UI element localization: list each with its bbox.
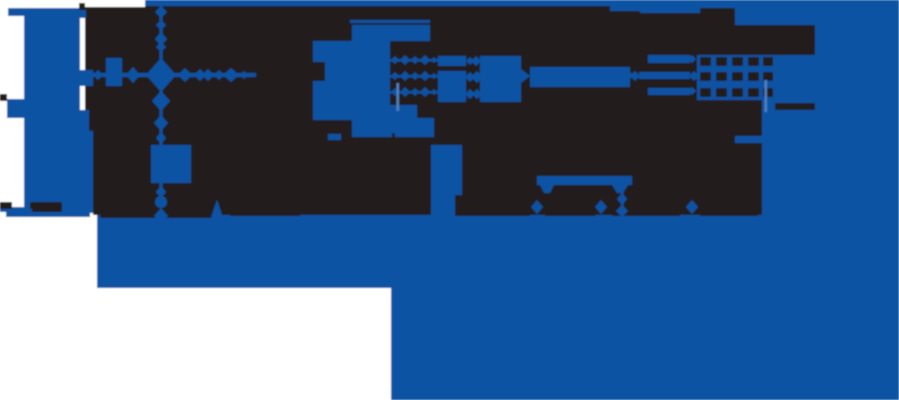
capacitor C1 (blue block on line) [151,145,191,183]
node D diamond [686,200,698,214]
wire bus bar W2b [639,72,690,79]
IC U2 block [480,56,521,102]
capacitor C2 column [431,145,462,217]
capacitor C3 left plate [438,56,466,102]
connector J1 stem [24,16,93,213]
wire bus bar W3 [648,88,690,95]
resistor network RN2 region (blue under dark dashes) [697,55,775,100]
node VCC plane corner extension [735,0,815,25]
node B diamond [531,200,543,214]
wire stub W5 [735,136,762,143]
node VCC plane (right blue field) [762,0,899,400]
wire dotted x=622 redraw [616,185,628,217]
wire light streak 2 [397,83,400,111]
capacitor C1a lower diamonds redraw [154,186,168,224]
connector J1 (left blue I-bar serif) [8,8,80,16]
resistor network RN1 rows (blue dotted rows on dark) [388,55,440,97]
wire top bus [145,0,899,6]
node spike A redraw [211,200,223,218]
dark region mid [565,6,735,215]
wire bus bar W1 [530,67,630,87]
transistor Q1 bottom blobs (dark bottom edge details) [100,195,758,218]
wire underline seg [350,20,430,23]
wire top-right wedge [565,0,735,13]
connector J1 wing [7,99,24,118]
dark region right arm [735,55,762,215]
wire bus bar W2 [648,55,690,63]
wire light streak 1 [765,80,768,112]
wire thin left [0,209,32,212]
dark region left arm [85,7,145,215]
ground tick left [0,94,7,101]
node spike A [211,200,223,218]
IC U1 body (central blue blob) [313,25,434,137]
wire fragment under blob [328,134,341,140]
dark dash F [775,103,815,110]
dark region main [145,6,565,215]
dark block E [735,25,815,55]
node bowties between plates [465,56,483,99]
node GND plane (bottom blue field) [97,212,899,288]
connector J1 foot [6,207,90,217]
ground tick serif [79,3,85,10]
wire dotted x=622 [616,185,628,217]
resistor R1 row (horizontal wire with bumps y=75) [80,58,256,92]
ground dashes bottom-left [0,202,12,211]
wire vertical dotted x=161 [151,6,191,224]
IC U2 pin arrow [521,69,530,83]
node C diamond [595,200,607,214]
wire bar W4 with feet [537,176,632,185]
